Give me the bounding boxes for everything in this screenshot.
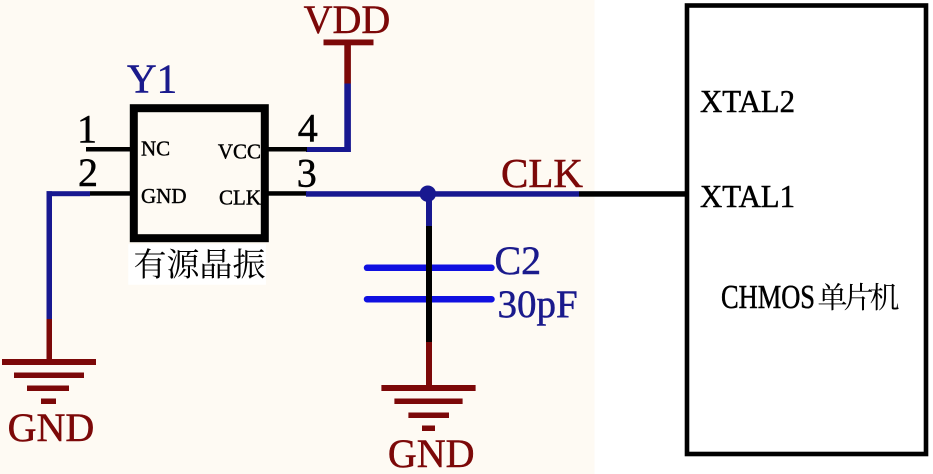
junction node — [420, 186, 436, 202]
svg-text:GND: GND — [8, 405, 95, 450]
microcontroller U1 (CHMOS MCU) body — [687, 6, 926, 455]
svg-text:2: 2 — [78, 150, 98, 195]
device label CHMOS单片机 — [721, 279, 899, 316]
pin name VCC — [218, 140, 261, 164]
svg-text:Y1: Y1 — [127, 56, 177, 102]
ground symbol (left) — [2, 359, 96, 450]
svg-text:CHMOS: CHMOS — [721, 279, 815, 316]
wire capacitor C2 to ground — [426, 226, 432, 386]
capacitor C2 — [367, 268, 492, 299]
svg-text:VCC: VCC — [218, 140, 261, 164]
svg-text:NC: NC — [141, 137, 170, 161]
net label CLK — [501, 150, 583, 196]
ground symbol (below C2) — [381, 385, 475, 474]
wire pin 2 to ground — [47, 191, 91, 360]
pin number 3 — [297, 151, 317, 196]
crystal oscillator Y1 body — [134, 108, 265, 238]
svg-text:VDD: VDD — [304, 0, 391, 42]
component name label 有源晶振 (active crystal oscillator) — [128, 244, 266, 285]
svg-text:3: 3 — [297, 151, 317, 196]
wire CLK net (pin 3 to XTAL1) — [306, 191, 686, 197]
svg-text:CLK: CLK — [219, 186, 261, 210]
port label XTAL1 — [700, 178, 795, 214]
pin 3 (CLK) stub — [266, 191, 307, 196]
pin number 4 — [298, 106, 318, 151]
pin name GND — [141, 184, 187, 208]
crystal reference label Y1 — [127, 56, 177, 102]
pin name CLK — [219, 186, 261, 210]
pin 1 (NC) stub — [86, 147, 133, 152]
pin 4 (VCC) stub — [266, 147, 307, 152]
pin number 1 — [77, 107, 97, 152]
pin name NC — [141, 137, 170, 161]
port label XTAL2 — [700, 83, 795, 119]
pin 2 (GND) stub — [90, 191, 133, 196]
svg-text:CLK: CLK — [501, 150, 583, 196]
pin number 2 — [78, 150, 98, 195]
wire junction to capacitor C2 — [426, 196, 432, 226]
svg-text:C2: C2 — [495, 238, 542, 283]
svg-text:GND: GND — [141, 184, 187, 208]
power symbol VDD — [304, 0, 391, 84]
value label C2 — [495, 238, 542, 283]
svg-text:30pF: 30pF — [498, 283, 578, 326]
svg-text:1: 1 — [77, 107, 97, 152]
svg-text:GND: GND — [388, 431, 475, 474]
svg-text:XTAL1: XTAL1 — [700, 178, 795, 214]
value label 30pF — [498, 283, 578, 326]
wire VDD stem to pin 4 — [306, 84, 351, 153]
svg-text:4: 4 — [298, 106, 318, 151]
svg-text:XTAL2: XTAL2 — [700, 83, 795, 119]
